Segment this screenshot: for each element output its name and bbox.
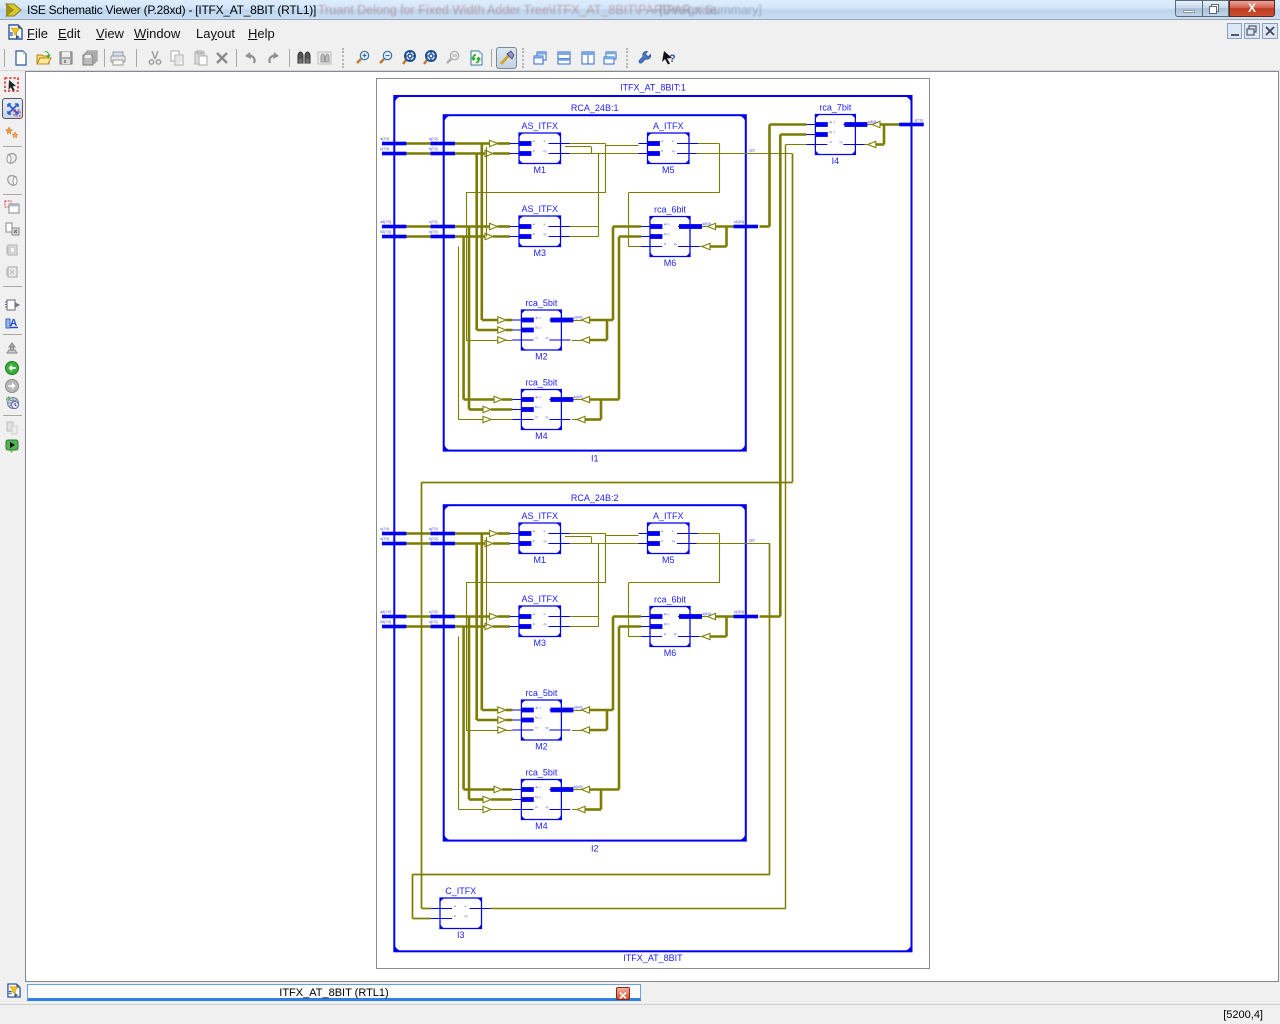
svg-text:a(..): a(..): [829, 120, 834, 124]
arrowhead M3.a g2: [490, 613, 498, 619]
component M5 g2 (A_ITFX): [639, 511, 699, 565]
svg-text:I3: I3: [457, 930, 465, 940]
wire net M1.cy g2: [570, 543, 592, 545]
wire bus M4.cy up g1: [600, 400, 603, 420]
svg-text:cy: cy: [465, 914, 469, 918]
svg-text:s: s: [544, 529, 546, 533]
wire net cy1 down: [792, 154, 794, 483]
toolbar icon paste: [193, 50, 209, 66]
arrowhead M2.a g1: [498, 317, 506, 323]
arrowhead I4.cy: [868, 141, 876, 147]
wire bus M6.a feed g2: [613, 615, 641, 618]
svg-text:a(7:0): a(7:0): [381, 137, 390, 141]
tab close button: [616, 987, 630, 1000]
svg-text:I4: I4: [832, 156, 840, 166]
svg-text:b: b: [662, 539, 664, 543]
toolbar icon copy: [169, 50, 185, 66]
svg-text:a(7:0): a(7:0): [429, 137, 438, 141]
sidebar icon conl: [4, 173, 20, 189]
component I3 (C_ITFX): [431, 886, 491, 940]
svg-text:b(..): b(..): [535, 326, 540, 330]
ISE logo icon: [5, 3, 22, 17]
component M4 g1 (rca_5bit): [512, 378, 582, 442]
wire lead M2.ci g2: [506, 730, 513, 732]
component M2 g2 (rca_5bit): [512, 688, 582, 752]
wire bus c g1: [406, 225, 430, 228]
wire bus M4-M6 g1: [618, 237, 621, 400]
port stub port a2 outer g1: [382, 225, 407, 229]
svg-text:a: a: [662, 529, 664, 533]
arrowhead M4.cy g2: [577, 806, 585, 812]
window title bar: [0, 0, 1280, 20]
toolbar icon refresh: [468, 50, 484, 66]
sidebar icon chiparr: [4, 297, 20, 313]
toolbar icon zoomin: [355, 50, 371, 66]
wire lead M4.b g1: [491, 408, 512, 411]
sidebar separator: [3, 286, 22, 287]
svg-text:cy: cy: [545, 805, 549, 809]
component M2 g1 (rca_5bit): [512, 298, 582, 362]
svg-text:M3: M3: [533, 248, 546, 258]
window title text: [27, 3, 316, 17]
wire bus I4.cy: [876, 143, 884, 146]
port stub port s out g2: [734, 615, 759, 619]
wire lead M2.a g1: [506, 319, 513, 322]
port stub port s out g1: [734, 225, 759, 229]
svg-text:rca_5bit: rca_5bit: [525, 298, 558, 308]
wire net M2.s lead g1: [572, 320, 582, 322]
wire lead b M1 g2: [493, 542, 510, 545]
wire net to M4.ci g2: [459, 809, 484, 811]
wire bus d down g1: [462, 237, 465, 400]
wire lead M4.ci g1: [491, 419, 512, 421]
arrowhead M4.b g1: [483, 406, 491, 412]
wire net M6.ci g2: [628, 636, 641, 638]
wire net M2.ci g1: [466, 340, 498, 342]
svg-text:b(..): b(..): [535, 405, 540, 409]
svg-text:M2: M2: [535, 742, 548, 752]
wire lead M4.a g2: [502, 788, 512, 791]
arrowhead M2.ci g2: [498, 727, 506, 733]
maximize button: [1203, 0, 1229, 17]
wire net jog g1: [591, 147, 593, 154]
component M6 g2 (rca_6bit): [641, 595, 711, 659]
svg-text:rca_5bit: rca_5bit: [525, 768, 558, 778]
svg-text:b(..): b(..): [829, 130, 834, 134]
svg-text:cy: cy: [674, 242, 678, 246]
port stub port c(7:0) outer g2: [382, 532, 407, 536]
toolbar icon tile4: [602, 50, 618, 66]
toolbar separator: [4, 49, 5, 67]
svg-text:ci: ci: [664, 632, 667, 636]
close button: [1229, 0, 1275, 17]
wire net M5g1.cy: [697, 153, 793, 155]
svg-text:d(7:0): d(7:0): [381, 537, 390, 541]
svg-text:a: a: [533, 222, 535, 226]
svg-text:M5: M5: [662, 555, 675, 565]
arrowhead M4.cy g1: [577, 416, 585, 422]
wire bus M6.b feed g1: [619, 235, 641, 238]
wire net M5.a feed g1: [606, 145, 639, 147]
arrowhead M2.cy g2: [582, 727, 590, 733]
svg-text:rca_5bit: rca_5bit: [525, 688, 558, 698]
svg-text:a(..): a(..): [535, 395, 540, 399]
wire net to M6.ci g1: [628, 193, 630, 247]
wire bus s1 up: [768, 125, 771, 227]
arrowhead M6.cy g1: [702, 243, 710, 249]
svg-text:cy: cy: [545, 415, 549, 419]
wire net M6.s lead g2: [699, 616, 708, 618]
svg-text:M4: M4: [535, 431, 548, 441]
svg-text:d(7:0): d(7:0): [429, 230, 438, 234]
wire bus M4.s g2: [590, 788, 620, 791]
wire net M2.cy lead g1: [572, 340, 582, 342]
sidebar icon fwd: [4, 378, 20, 394]
svg-text:s(6:0): s(6:0): [868, 120, 877, 124]
arrowhead M2.s g2: [582, 707, 590, 713]
wire bus d to M3 g1: [455, 235, 485, 238]
sidebar icon abc: [4, 315, 20, 331]
wire bus M2-M6 g2: [612, 617, 615, 711]
wire bus M6.s g2: [716, 615, 736, 618]
wire lead M2.ci g1: [506, 340, 513, 342]
arrowhead M2.cy g1: [582, 337, 590, 343]
wire bus M4.cy g1: [585, 418, 601, 421]
wire bus M4.cy g2: [585, 808, 601, 811]
svg-text:ci: ci: [535, 805, 538, 809]
wire lead a M1 g1: [498, 142, 511, 145]
wire net I4.s lead: [867, 124, 872, 126]
wire bus d down g2: [462, 627, 465, 790]
port stub port d inner g2: [430, 625, 455, 629]
wire bus d to M3 g2: [455, 625, 485, 628]
wire bus c down g2: [468, 617, 471, 800]
svg-text:b(..): b(..): [535, 716, 540, 720]
wire net I3.cy up: [785, 145, 787, 909]
svg-text:a2(7:0): a2(7:0): [381, 220, 391, 224]
toolbar group separator: [342, 48, 344, 68]
toolbar icon find2: [317, 50, 333, 66]
svg-text:c(7:0): c(7:0): [381, 527, 389, 531]
toolbar icon zoomfull: [401, 50, 417, 66]
svg-text:ci: ci: [535, 726, 538, 730]
wire bus b g2: [406, 542, 430, 545]
svg-text:ci: ci: [829, 140, 832, 144]
arrowhead M1.b g1: [485, 150, 493, 156]
wire bus to M2.a g2: [482, 709, 498, 712]
svg-text:b2(7:0): b2(7:0): [381, 620, 391, 624]
svg-text:AS_ITFX: AS_ITFX: [521, 511, 558, 521]
wire net M5.s down g1: [719, 144, 721, 193]
toolbar icon save: [58, 50, 74, 66]
svg-text:s(5:0): s(5:0): [703, 612, 712, 616]
svg-text:rca_6bit: rca_6bit: [654, 205, 687, 215]
svg-text:b: b: [533, 539, 535, 543]
toolbar separator: [491, 49, 492, 67]
MDI close button: [1262, 23, 1278, 39]
svg-text:cy: cy: [839, 140, 843, 144]
svg-text:a: a: [533, 529, 535, 533]
svg-text:s(4:0): s(4:0): [574, 785, 583, 789]
component M3 g1 (AS_ITFX): [510, 204, 570, 258]
svg-text:M6: M6: [664, 258, 677, 268]
wire bus d g1: [406, 235, 430, 238]
svg-text:b(..): b(..): [664, 622, 669, 626]
toolbar icon wrench: [637, 50, 653, 66]
sidebar icon rectsx: [4, 221, 20, 237]
wire bus to M4.a g2: [464, 788, 494, 791]
wire net M1.s g1: [561, 143, 606, 145]
svg-text:rca_7bit: rca_7bit: [819, 103, 852, 113]
wire net M1.s down g2: [605, 534, 607, 583]
wire net cin M4 g2: [458, 637, 460, 810]
sidebar icon select: [4, 77, 20, 93]
toolbar icon tilev: [580, 50, 596, 66]
wire lead M2.b g1: [506, 329, 513, 332]
toolbar icon find: [296, 50, 312, 66]
svg-text:s: s: [465, 904, 467, 908]
svg-text:b: b: [454, 914, 456, 918]
svg-text:c(7:0): c(7:0): [429, 610, 437, 614]
svg-text:b2(7:0): b2(7:0): [381, 230, 391, 234]
sidebar icon winred: [4, 199, 20, 215]
wire net M3.s up g2: [598, 544, 600, 627]
sidebar icon pin: [4, 341, 20, 357]
arrowhead M4.ci g2: [483, 806, 491, 812]
wire net M6.cy lead g2: [699, 636, 702, 638]
toolbar separator: [289, 49, 290, 67]
sidebar icon back: [4, 360, 20, 376]
svg-text:b(..): b(..): [664, 232, 669, 236]
wire net M2.ci g2: [466, 730, 498, 732]
wire net M5.a feed g2: [606, 535, 639, 537]
svg-text:b: b: [533, 232, 535, 236]
wire net cy2 down: [769, 544, 771, 875]
wire bus a to M1 g2: [455, 532, 490, 535]
svg-text:ci: ci: [664, 242, 667, 246]
wire bus M6.a feed g1: [613, 225, 641, 228]
port stub port b2 outer g2: [382, 625, 407, 629]
port stub port c inner g1: [430, 225, 455, 229]
wire bus to M2.b g2: [477, 719, 498, 722]
component M1 g2 (AS_ITFX): [510, 511, 570, 565]
wire lead M4.ci g2: [491, 809, 512, 811]
svg-text:a: a: [454, 904, 456, 908]
toolbar icon undo: [242, 50, 258, 66]
wire bus b to M1 g2: [455, 542, 485, 545]
arrowhead M6.s g1: [708, 223, 716, 229]
wire lead M4.b g2: [491, 798, 512, 801]
sidebar pressed button (fit view): [2, 98, 23, 119]
port stub port c inner g2: [430, 615, 455, 619]
svg-text:a(..): a(..): [535, 706, 540, 710]
wire net M3.s up g1: [598, 154, 600, 237]
bottom tab bar: [0, 982, 1280, 1004]
svg-text:s: s: [544, 222, 546, 226]
svg-text:b(..): b(..): [535, 795, 540, 799]
arrowhead M4.ci g1: [483, 416, 491, 422]
wire bus s2 to I4.b: [780, 133, 806, 136]
svg-text:a2(7:0): a2(7:0): [381, 610, 391, 614]
wire net to M4.ci g1: [459, 419, 484, 421]
svg-text:M2: M2: [535, 352, 548, 362]
wire net M4.s lead g1: [572, 399, 582, 401]
toolbar group separator: [626, 48, 628, 68]
wire net M5.s g2: [697, 533, 720, 535]
wire net M6.s lead g1: [699, 226, 708, 228]
svg-text:rca_6bit: rca_6bit: [654, 595, 687, 605]
wire bus M4-M6 g2: [618, 627, 621, 790]
arrowhead M6.s g2: [708, 613, 716, 619]
svg-text:RCA_24B:1: RCA_24B:1: [571, 103, 619, 113]
svg-text:b(7:0): b(7:0): [429, 537, 438, 541]
minimize button: [1175, 0, 1203, 17]
svg-text:s(4:0): s(4:0): [574, 316, 583, 320]
wire net I3.a: [422, 908, 431, 910]
sidebar icon chipg2: [4, 264, 20, 280]
wire lead M4.a g1: [502, 398, 512, 401]
component M6 g1 (rca_6bit): [641, 205, 711, 269]
wire bus b to M1 g1: [455, 152, 485, 155]
svg-text:s1(5:0): s1(5:0): [734, 610, 744, 614]
toolbar icon print: [110, 50, 126, 66]
port stub port s(7:0): [899, 123, 924, 127]
wire lead d M3 g2: [493, 625, 510, 628]
arrowhead M3.b g1: [485, 233, 493, 239]
toolbar icon helpq: [660, 50, 676, 66]
svg-text:b(7:0): b(7:0): [429, 147, 438, 151]
wire net M1.cy g1: [570, 153, 592, 155]
port stub port b2 outer g1: [382, 235, 407, 239]
svg-text:s22: s22: [749, 539, 755, 543]
wire net cin M4 g1: [458, 247, 460, 420]
port stub port b inner g2: [430, 542, 455, 546]
left sidebar: [0, 71, 25, 982]
wire bus c to M3 g2: [455, 615, 490, 618]
svg-text:s(4:0): s(4:0): [574, 395, 583, 399]
svg-text:s(7:0): s(7:0): [915, 118, 923, 122]
svg-text:a: a: [533, 612, 535, 616]
arrowhead M4.a g2: [494, 786, 502, 792]
wire net M4.cy lead g1: [572, 419, 577, 421]
toolbar icon zoomsel: [422, 50, 438, 66]
port stub port a inner g2: [430, 532, 455, 536]
port stub port d(7:0) outer g2: [382, 542, 407, 546]
outer frame ITFX_AT_8BIT:1: [377, 79, 930, 969]
svg-text:cy: cy: [544, 622, 548, 626]
wire net crossover g1: [466, 192, 606, 194]
wire lead a M1 g2: [498, 532, 511, 535]
wire lead M2.a g2: [506, 709, 513, 712]
sidebar icon conr: [4, 151, 20, 167]
toolbar icon open: [36, 50, 52, 66]
svg-text:M4: M4: [535, 821, 548, 831]
wire bus M6.cy g2: [710, 635, 727, 638]
toolbar icon tileh: [556, 50, 572, 66]
wire net I3.cy: [491, 908, 786, 910]
module ITFX_AT_8BIT boundary: [394, 96, 911, 951]
arrowhead M1.a g1: [490, 140, 498, 146]
svg-text:s: s: [672, 139, 674, 143]
wire bus M6.s g1: [716, 225, 736, 228]
wire bus M6.b feed g2: [619, 625, 641, 628]
wire net jog2 g1: [565, 146, 591, 148]
svg-text:s1(5:0): s1(5:0): [734, 220, 744, 224]
component M3 g2 (AS_ITFX): [510, 594, 570, 648]
toolbar icon del: [214, 50, 230, 66]
port stub port a(7:0) outer g1: [382, 142, 407, 146]
arrowhead M4.s g2: [582, 786, 590, 792]
module RCA_24B:1 boundary: [444, 115, 746, 450]
arrowhead M2.b g2: [498, 717, 506, 723]
wire net jog3 g2: [486, 537, 488, 627]
wire net M2.cy lead g2: [572, 730, 582, 732]
svg-text:I2: I2: [591, 844, 599, 854]
wire net M6.cy lead g1: [699, 246, 702, 248]
wire net jog3 g1: [486, 147, 488, 237]
wire net to M6.ci g2: [628, 583, 630, 637]
sidebar icon chipg1: [4, 242, 20, 258]
svg-text:C_ITFX: C_ITFX: [445, 886, 476, 896]
arrowhead M1.a g2: [490, 530, 498, 536]
wire bus M6.cy g1: [710, 245, 727, 248]
arrowhead M2.s g1: [582, 317, 590, 323]
svg-text:a: a: [662, 139, 664, 143]
menu bar: [0, 21, 1280, 45]
wire net jog g2: [591, 537, 593, 544]
svg-text:ci: ci: [535, 415, 538, 419]
svg-text:cy: cy: [544, 232, 548, 236]
wire bus M6.cy up g1: [725, 227, 728, 247]
svg-text:AS_ITFX: AS_ITFX: [521, 594, 558, 604]
svg-text:cy: cy: [544, 539, 548, 543]
wire bus M4.cy up g2: [600, 790, 603, 810]
toolbar icon zoomgray: [445, 50, 461, 66]
svg-text:A_ITFX: A_ITFX: [653, 511, 684, 521]
wire bus M6.cy up g2: [725, 617, 728, 637]
wire net crossover g2: [466, 582, 606, 584]
wire bus s1 to v: [760, 225, 770, 228]
svg-text:ci: ci: [535, 336, 538, 340]
wire net cy2 across: [413, 874, 770, 876]
wire net M5.s g1: [697, 143, 720, 145]
port stub port b(7:0) outer g1: [382, 152, 407, 156]
toolbar icon zoomout: [378, 50, 394, 66]
arrowhead M3.a g1: [490, 223, 498, 229]
svg-text:a(7:0): a(7:0): [429, 527, 438, 531]
wire bus a down g1: [480, 144, 483, 321]
svg-text:a: a: [533, 139, 535, 143]
sidebar icon stars: [4, 125, 20, 141]
svg-text:?: ?: [669, 53, 676, 65]
wire bus M2.cy up g1: [606, 320, 609, 340]
arrowhead M6.cy g2: [702, 633, 710, 639]
svg-text:s: s: [672, 529, 674, 533]
svg-text:cy: cy: [672, 149, 676, 153]
status bar: [0, 1004, 1280, 1024]
svg-text:rca_5bit: rca_5bit: [525, 378, 558, 388]
MDI restore button: [1244, 23, 1260, 39]
sidebar separator: [3, 194, 22, 195]
wire net M5 to M6 g2: [628, 582, 719, 584]
toolbar pressed button (view hammer): [496, 47, 517, 69]
sidebar icon play: [4, 438, 20, 454]
svg-text:I1: I1: [591, 454, 599, 464]
wire bus s2 up: [779, 135, 782, 617]
component M1 g1 (AS_ITFX): [510, 121, 570, 175]
arrowhead M4.b g2: [483, 796, 491, 802]
sidebar separator: [3, 415, 22, 416]
